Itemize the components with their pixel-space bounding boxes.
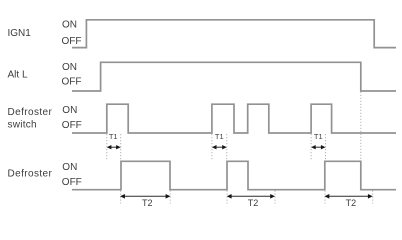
T1 guide pair 1 <box>107 134 121 161</box>
T1 guide pair 2 <box>212 134 227 161</box>
T2 guide pair 2 <box>227 191 275 204</box>
IGN1 waveform <box>72 20 396 48</box>
T2 guide pair 1 <box>121 191 171 204</box>
svg-text:OFF: OFF <box>62 76 82 87</box>
dotted guide Alt L fall <box>360 92 362 161</box>
svg-text:ON: ON <box>62 105 77 116</box>
svg-text:Defroster: Defroster <box>8 107 53 118</box>
svg-text:T1: T1 <box>215 132 224 141</box>
svg-text:T2: T2 <box>142 198 153 208</box>
svg-text:Alt L: Alt L <box>8 70 28 81</box>
svg-text:switch: switch <box>8 120 37 131</box>
Defroster waveform <box>72 161 396 189</box>
svg-text:Defroster: Defroster <box>8 169 53 180</box>
svg-text:IGN1: IGN1 <box>8 28 32 39</box>
Defroster switch waveform <box>72 104 396 133</box>
T1 arrow 3 <box>311 145 325 149</box>
T1 guide pair 3 <box>311 134 325 161</box>
svg-text:T2: T2 <box>346 198 357 208</box>
T2 arrow 2 <box>227 194 275 199</box>
Alt L waveform <box>72 62 396 91</box>
T1 arrow 2 <box>212 145 227 149</box>
T2 guide pair 3 <box>325 191 373 204</box>
svg-text:OFF: OFF <box>62 120 82 131</box>
svg-text:ON: ON <box>62 19 77 30</box>
svg-text:ON: ON <box>62 62 77 73</box>
svg-text:T2: T2 <box>248 198 259 208</box>
T1 arrow 1 <box>107 145 121 149</box>
svg-text:ON: ON <box>62 162 77 173</box>
svg-text:OFF: OFF <box>62 177 82 188</box>
svg-text:OFF: OFF <box>62 36 82 47</box>
T2 arrow 1 <box>120 194 170 199</box>
T2 arrow 3 <box>325 194 373 199</box>
svg-text:T1: T1 <box>314 132 323 141</box>
svg-text:T1: T1 <box>109 132 118 141</box>
